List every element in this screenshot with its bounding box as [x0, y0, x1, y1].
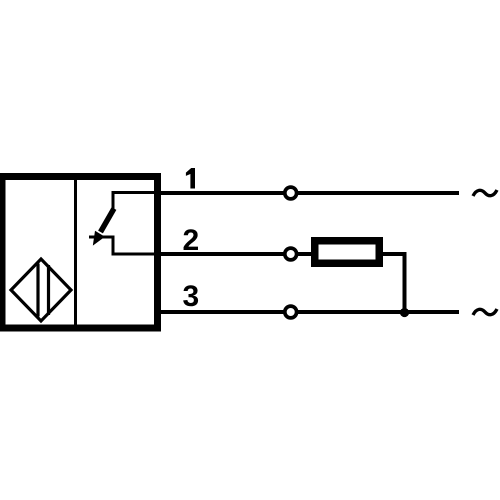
wire 2 to resistor	[298, 252, 315, 256]
resistor lead to wire 3	[383, 254, 405, 312]
svg-text:2: 2	[182, 224, 199, 257]
AC source tilde wire 1	[473, 190, 497, 196]
switch lever arrowhead	[94, 232, 105, 245]
terminal circle 2	[285, 248, 297, 260]
wire 1 right segment	[298, 191, 460, 195]
terminal circle 1	[285, 187, 297, 199]
junction dot	[400, 308, 409, 317]
wire 1 left segment	[157, 191, 284, 195]
wire 3 right segment	[298, 310, 460, 314]
load resistor	[315, 241, 380, 264]
sensor body box	[2, 177, 158, 329]
wire 3 left segment	[157, 310, 284, 314]
label 1	[186, 168, 195, 189]
diamond inner line left	[36, 264, 39, 317]
switch lever	[101, 209, 115, 233]
inductive sensor diamond	[11, 259, 71, 321]
AC source tilde wire 3	[473, 309, 497, 315]
switch feed from terminal 1	[113, 193, 155, 212]
switch contact to terminal 2	[89, 237, 155, 254]
compartment divider	[74, 180, 77, 325]
wire 2 left segment	[157, 252, 284, 256]
svg-text:3: 3	[182, 280, 199, 313]
diamond inner line right	[47, 265, 50, 315]
terminal circle 3	[285, 306, 297, 318]
